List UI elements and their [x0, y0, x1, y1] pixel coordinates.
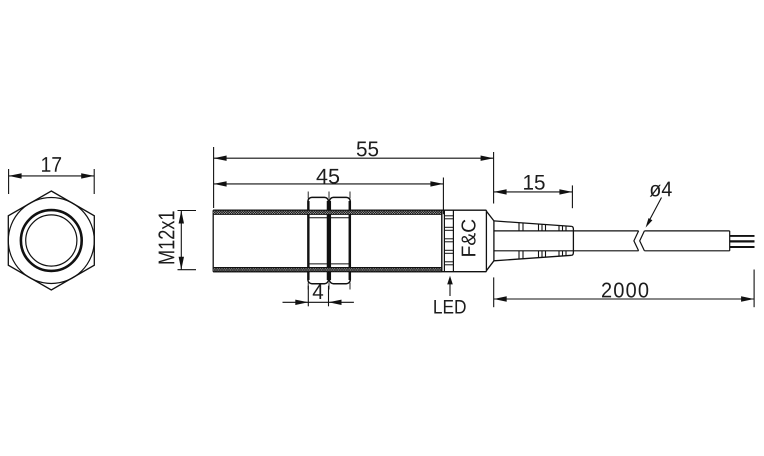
strain relief ribs: [519, 223, 566, 259]
dimension 17 label: [42, 157, 61, 172]
front view thread circle (thick): [21, 210, 82, 271]
F&C logo text: [461, 220, 475, 256]
cable left segment: [494, 231, 639, 251]
thread hatch top band: [213, 210, 442, 214]
nut chamfer lines: [309, 218, 349, 264]
hex nut front view outline: [8, 191, 94, 290]
dimension M12x1: [158, 211, 196, 270]
dimension 45: [214, 169, 444, 214]
barrel end line: [441, 210, 443, 272]
dimension 55: [214, 142, 494, 208]
thread hatch bottom band: [213, 268, 442, 272]
nut facet edge spikes: [308, 192, 350, 290]
barrel body: [213, 210, 486, 272]
front view chamfer circle: [8, 198, 94, 284]
strain relief chamfer: [486, 211, 494, 271]
mounting nut band 2: [329, 197, 350, 283]
mounting nut band 1: [308, 197, 329, 283]
front view bore circle: [26, 215, 77, 266]
LED window column: [444, 210, 453, 272]
wire leads: [730, 236, 755, 247]
cable right segment: [644, 231, 729, 251]
dimension 15: [494, 175, 573, 208]
strain relief taper: [494, 221, 574, 261]
dimension 17 arrow left: [9, 173, 22, 178]
nut side facet edges: [309, 201, 350, 280]
dimension 17 arrow right: [81, 173, 94, 178]
dimension 4: [283, 284, 354, 306]
cable diameter label: [646, 182, 672, 228]
LED label: [434, 276, 465, 314]
dimension 17 line: [9, 175, 95, 177]
cable break left chevron: [634, 231, 639, 251]
dimension 2000: [494, 270, 754, 308]
dimension 17 extension lines: [9, 169, 95, 194]
end cap with F&C: [485, 210, 487, 272]
cable break right chevron: [640, 231, 645, 251]
